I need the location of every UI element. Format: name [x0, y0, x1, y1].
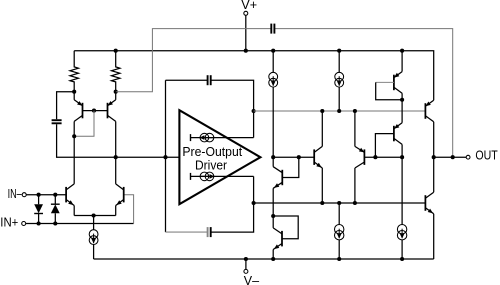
resistor R2 [112, 51, 120, 92]
wire V+ stub [245, 15, 247, 50]
wire Q10 collector [401, 93, 403, 100]
wire Q10 base loop [376, 82, 402, 99]
wire Q6 emitter [272, 250, 274, 260]
V- terminal stub junction [244, 257, 248, 261]
junction IN+ D1 [37, 221, 41, 225]
capacitor C1 [52, 120, 62, 123]
transistor Q7 [314, 146, 322, 168]
junction R2 bottom [114, 90, 118, 94]
transistor Q10 [394, 72, 402, 94]
wire V- stub [245, 259, 247, 269]
junction Q10 emitter V+ [400, 49, 404, 53]
label Driver [195, 159, 227, 173]
junction R1 bottom [72, 90, 76, 94]
wire box left [165, 80, 167, 232]
transistor Q1 [66, 184, 74, 206]
wire box bottom right [211, 176, 254, 232]
label Pre-Output [182, 145, 242, 159]
junction Q3 collector loop [72, 134, 76, 138]
wire Q10 to Q9 [401, 100, 403, 123]
junction I6 top [337, 201, 341, 205]
wire tail [74, 215, 116, 217]
wire Q12 emitter [433, 214, 435, 259]
wire Q5 collector [272, 157, 274, 167]
junction R2 top [114, 49, 118, 53]
capacitor C4 (bottom) [208, 227, 211, 237]
IN- terminal [22, 193, 26, 197]
wire I4 column [272, 51, 274, 158]
wire Q10 emitter [401, 51, 403, 72]
wire Q11 collector [433, 122, 435, 157]
current source I4 [269, 72, 278, 87]
IN- terminal label [8, 187, 22, 201]
current source I6 [335, 225, 344, 240]
wire Q1 emitter to tail [73, 206, 75, 216]
capacitor C2 (Miller) [271, 24, 274, 34]
transistor Q4 [108, 100, 116, 122]
junction Q5 base loop top [297, 155, 301, 159]
svg-text:V+: V+ [241, 0, 257, 12]
wire box bottom left [166, 231, 208, 233]
junction box upper drive [252, 109, 256, 113]
wire Q7 emitter [321, 168, 323, 203]
junction Q8 collector mid rail [353, 201, 357, 205]
wire upper drive rail [254, 110, 426, 112]
wire Q7 collector [321, 111, 323, 146]
IN+ terminal [22, 222, 26, 226]
transistor Q6 [273, 228, 282, 250]
svg-text:OUT: OUT [475, 149, 498, 163]
wire Q2 emitter to tail [115, 206, 117, 216]
wire Q5 base loop [282, 157, 299, 177]
junction I5 top [337, 49, 341, 53]
op-amp pre-output driver U1 [179, 110, 260, 204]
current source I5 [335, 72, 344, 87]
svg-text:Driver: Driver [195, 159, 227, 173]
wire IN- line [26, 194, 66, 196]
transistor Q5 [273, 167, 282, 189]
junction I5 rail [337, 109, 341, 113]
wire V- rail [94, 258, 434, 260]
V- terminal label [244, 274, 259, 285]
junction I4 top [271, 49, 275, 53]
wire V+ rail [74, 51, 434, 100]
wire box top right [211, 80, 254, 137]
wire Q4 emitter [115, 92, 117, 100]
junction Miller OUT [451, 155, 455, 159]
junction Q10 diode [400, 98, 404, 102]
junction IN+ D2 [53, 221, 57, 225]
wire I5 column [338, 51, 340, 111]
wire Q9 collector [401, 144, 403, 157]
junction drive node A [271, 155, 275, 159]
transistor Q2 [116, 184, 124, 206]
junction Q7 emitter mid rail [320, 201, 324, 205]
wire Q3 Q4 bases [83, 110, 108, 112]
wire Q6 base loop [273, 216, 298, 239]
wire Q12 collector [433, 157, 435, 192]
wire Q9 base loop [375, 134, 394, 158]
junction tail [92, 213, 96, 217]
OUT terminal [466, 155, 470, 159]
wire Q3 emitter [73, 92, 75, 100]
resistor R1 [70, 51, 78, 92]
svg-text:V–: V– [244, 274, 259, 285]
junction I6 V- rail [337, 257, 341, 261]
junction Q5 Q6 [271, 214, 275, 218]
diode D2 [51, 195, 60, 224]
wire I7 to V- rail [401, 240, 403, 259]
wire IN+ line [26, 223, 134, 225]
diode D1 [34, 195, 43, 224]
current source I2 (upper drive) [191, 133, 254, 142]
capacitor C3 (top) [208, 75, 211, 85]
junction second stage input [114, 155, 118, 159]
wire mid rail [254, 202, 426, 204]
transistor Q3 [74, 100, 82, 122]
svg-text:Pre-Output: Pre-Output [182, 145, 242, 159]
wire Q8 collector [354, 168, 356, 203]
junction I7 V- rail [400, 257, 404, 261]
wire tail source to V- rail [93, 245, 95, 260]
wire mirror diode loop [74, 111, 94, 137]
wire R1 node to C1 [57, 92, 75, 120]
junction bases [92, 109, 96, 113]
svg-text:IN+: IN+ [0, 215, 18, 229]
junction box lower drive [252, 201, 256, 205]
V+ terminal label [241, 0, 257, 12]
wire Q3 collector [73, 121, 75, 183]
wire Q6 collector [272, 216, 274, 228]
wire Q5 emitter [272, 188, 274, 216]
wire OUT [434, 156, 467, 158]
wire box top left [166, 79, 208, 81]
wire IN+ riser to Q2 base [124, 195, 134, 224]
transistor Q8 [355, 146, 365, 168]
IN+ terminal label [0, 215, 18, 229]
wire Miller net [116, 29, 453, 158]
svg-text:IN–: IN– [8, 187, 22, 201]
transistor Q9 [394, 123, 402, 145]
junction Q9 base drop [373, 155, 377, 159]
junction drive line end [400, 155, 404, 159]
V- terminal [244, 269, 248, 273]
junction Q8 emitter rail [353, 109, 357, 113]
wire Q8 base line [364, 156, 402, 158]
junction Q6 emitter V- rail [271, 257, 275, 261]
junction V+ rail [244, 49, 248, 53]
OUT terminal label [475, 149, 498, 163]
wire C1 to input node [57, 124, 180, 157]
wire Q9 to I7 [401, 157, 403, 225]
wire Q4 collector [115, 121, 117, 183]
wire I6 column [338, 203, 340, 259]
current source I1 (tail) [89, 230, 98, 245]
junction IN- D2 [53, 193, 57, 197]
junction OUT node [432, 155, 436, 159]
transistor Q12 [425, 192, 433, 214]
current source I3 (lower drive) [191, 172, 254, 181]
junction Q7 collector rail [320, 109, 324, 113]
wire tail to source [93, 216, 95, 230]
wire Q8 emitter [354, 111, 356, 146]
current source I7 [397, 225, 406, 240]
junction IN- D1 [37, 193, 41, 197]
junction box left input [163, 155, 167, 159]
transistor Q11 [425, 100, 433, 122]
wire drive node line [273, 156, 314, 158]
V+ terminal [244, 11, 248, 15]
